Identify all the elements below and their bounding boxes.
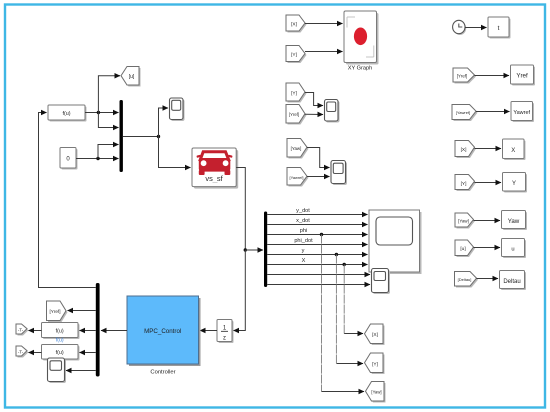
from tag [Y] right [455, 175, 476, 192]
svg-text:[Yaw]: [Yaw] [458, 218, 469, 223]
svg-text:f(u): f(u) [62, 111, 70, 117]
wire branch up to Mux1 input 3 [98, 145, 119, 159]
svg-text:[Y]: [Y] [461, 181, 467, 187]
svg-text:Controller: Controller [150, 370, 175, 376]
svg-text:[X]: [X] [461, 147, 467, 153]
junction dot below vs_sf [244, 248, 247, 251]
svg-text:[X]: [X] [291, 21, 297, 27]
wire [Deltau] to display Deltau [477, 278, 499, 280]
svg-text:-T-: -T- [18, 327, 24, 332]
from tag [Yawref] mid [287, 168, 309, 187]
signal wire x_dot [267, 218, 367, 225]
svg-text:[u]: [u] [460, 246, 465, 252]
svg-text:[u]: [u] [129, 74, 135, 80]
wire f(u)A output to Mux1 input 1 [85, 112, 119, 114]
goto tag [Y] [365, 353, 385, 374]
wire [X] to display X [475, 148, 502, 150]
display Yref [511, 65, 536, 86]
wire feedback Demux2 to f(u)A [39, 113, 96, 288]
svg-text:[Yref]: [Yref] [50, 309, 61, 314]
wire Demux2 to Scope6 [66, 370, 96, 372]
svg-text:X: X [302, 258, 306, 264]
svg-text:[Yref]: [Yref] [457, 73, 468, 78]
svg-text:Yaw: Yaw [508, 218, 520, 225]
goto tag [Yref] [47, 301, 68, 322]
wire MPC_Control output to Demux2 [101, 330, 127, 332]
wire vs_sf output down to junction [236, 168, 245, 251]
svg-text:f(u): f(u) [56, 328, 64, 334]
display t [488, 17, 511, 39]
signal wire 7 to small scope [267, 274, 370, 276]
scope Scope1 [170, 98, 185, 121]
demux Demux2 [96, 283, 100, 377]
svg-text:[Yaw]: [Yaw] [291, 146, 302, 151]
junction dot on f(u)A output [97, 111, 100, 114]
svg-text:[Yref]: [Yref] [289, 112, 299, 117]
wire [Yaw] to Scope3 input 1 [307, 148, 330, 168]
subsystem vs_sf (vehicle) [192, 148, 238, 189]
svg-text:u: u [511, 247, 514, 253]
mux Mux1 [120, 100, 123, 172]
wire junction to Demux1 input [245, 249, 263, 251]
wire [Yref] to display Yref [475, 75, 510, 77]
wire [Y] to display Y [475, 182, 502, 184]
scope Scope4 (large states scope) [369, 210, 422, 274]
svg-text:y: y [302, 248, 305, 254]
svg-text:XY Graph: XY Graph [348, 66, 372, 72]
wire [Y] to Scope2 input 1 [305, 93, 323, 106]
from tag [Yref] mid [286, 105, 307, 125]
svg-text:[Y]: [Y] [372, 361, 378, 367]
from tag [Yawref] right [452, 105, 478, 122]
from tag [Y] mid [286, 83, 307, 103]
wire [u] to display u [474, 247, 501, 249]
wire [Yref] to Scope2 input 2 [305, 113, 323, 115]
svg-text:-T-: -T- [18, 349, 24, 354]
wire X down to goto [X] [344, 265, 363, 334]
goto tag [Yaw] [366, 382, 386, 403]
unit delay 1/z [217, 320, 234, 344]
svg-text:y_dot: y_dot [296, 208, 310, 214]
from tag [Yref] right [453, 68, 476, 84]
block MPC_Control [127, 296, 201, 366]
svg-text:[Yaw]: [Yaw] [371, 390, 381, 395]
scope Scope5 (small) [372, 269, 391, 295]
junction dot on y [335, 253, 338, 256]
wire clock to display t [465, 27, 487, 29]
display Yaw [502, 211, 528, 231]
wire Demux2 to f(u)C [80, 352, 96, 354]
svg-text:t: t [498, 25, 500, 32]
junction dot on phi [320, 233, 323, 236]
junction dot on Mux1 output [157, 135, 160, 138]
display X [503, 139, 526, 160]
svg-text:[X]: [X] [372, 332, 378, 338]
svg-text:[Yawref]: [Yawref] [456, 110, 470, 115]
from tag [X] right [455, 141, 476, 159]
wire branch down to Mux1 input 2 [98, 113, 118, 128]
svg-text:Deltau: Deltau [503, 279, 520, 285]
goto tag -T- 1 [16, 324, 29, 336]
from tag [Yaw] right [455, 213, 475, 229]
from tag [Deltau] right [455, 272, 479, 288]
clock [453, 20, 467, 35]
demux Demux1 [264, 212, 267, 288]
signal wire y_dot [267, 208, 367, 215]
wire branch up to goto [u] [98, 76, 120, 113]
from tag [Yaw] mid [287, 139, 309, 159]
signal wire X [267, 258, 367, 265]
junction dot on constant output [96, 157, 99, 160]
svg-text:x_dot: x_dot [296, 218, 310, 224]
wire [Yawref] to Scope3 input 2 [307, 176, 330, 178]
goto tag [X] [365, 324, 385, 345]
signal wire y [267, 248, 367, 255]
signal wire phi_dot [267, 238, 367, 245]
display Y [503, 173, 528, 193]
goto tag -T- 2 [16, 346, 29, 358]
wire unit delay to MPC_Control [200, 330, 217, 332]
wire [Y] to XY Graph input 2 [305, 51, 343, 53]
scope Scope6 [48, 358, 67, 383]
wire up to Scope1 [159, 108, 169, 137]
svg-text:Y: Y [512, 181, 516, 187]
scope Scope2 [325, 100, 340, 123]
svg-text:X: X [511, 148, 515, 154]
block Fcn f(u) C [42, 345, 80, 361]
scope XY Graph [344, 11, 379, 65]
wire phi down to goto [Yaw] [322, 235, 365, 392]
wire y down to goto [Y] [336, 255, 363, 364]
block Constant 0 [60, 148, 78, 170]
svg-text:[Deltau]: [Deltau] [458, 277, 472, 282]
wire f(u)B to -T- 1 [29, 330, 42, 332]
svg-text:[Yawref]: [Yawref] [290, 175, 304, 180]
wire down to vs_sf [159, 137, 191, 168]
display Yawref [511, 102, 534, 123]
wire Mux1 output [123, 136, 159, 138]
svg-text:Yref: Yref [516, 73, 528, 80]
from tag [Y] top [286, 46, 307, 64]
block Fcn f(u) A [48, 105, 87, 122]
wire Demux2 to goto [Yref] [68, 310, 96, 312]
goto tag [u] [121, 67, 141, 87]
svg-text:phi_dot: phi_dot [294, 238, 313, 244]
svg-text:f(u): f(u) [56, 338, 64, 344]
junction dot on X [343, 263, 346, 266]
signal wire 8 to small scope [267, 284, 370, 286]
svg-text:MPC_Control: MPC_Control [144, 328, 181, 335]
svg-text:phi: phi [300, 228, 307, 234]
block Fcn f(u) B [42, 323, 80, 340]
svg-text:[Y]: [Y] [291, 52, 297, 58]
from tag [X] top [286, 15, 307, 33]
svg-text:f(u): f(u) [56, 350, 64, 356]
svg-text:Yawref: Yawref [513, 110, 530, 116]
signal wire phi [267, 228, 367, 235]
display u [502, 239, 527, 259]
wire f(u)C to -T- 2 [29, 352, 42, 354]
from tag [u] right [455, 240, 475, 257]
scope Scope3 [331, 161, 347, 186]
wire [Yaw] to display Yaw [474, 220, 501, 222]
svg-text:vs_sf: vs_sf [205, 174, 223, 183]
wire Demux2 to f(u)B [80, 330, 96, 332]
svg-text:[Y]: [Y] [291, 90, 297, 96]
svg-text:z: z [223, 336, 226, 342]
wire constant 0 to Mux1 input 4 [76, 158, 119, 160]
wire junction down to Unit Delay [234, 250, 246, 331]
display Deltau [500, 271, 527, 291]
wire [Yawref] to display Yawref [476, 111, 510, 113]
wire [X] to XY Graph input 1 [305, 23, 343, 25]
